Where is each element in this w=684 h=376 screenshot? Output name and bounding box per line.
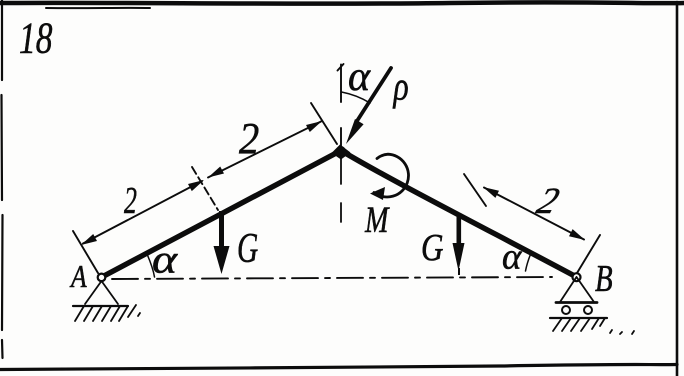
tick at top of vertical line (338, 64, 344, 71)
svg-text:α: α (152, 237, 178, 282)
support B ground line (550, 317, 607, 319)
border frame right (676, 2, 679, 376)
svg-text:G: G (237, 225, 258, 271)
angle arc alpha at A (147, 254, 155, 277)
support B rollers (562, 306, 570, 314)
wire: vertical dashed line above apex (340, 65, 342, 147)
svg-text:2: 2 (124, 180, 137, 222)
force G1 arrowhead (214, 246, 230, 274)
dimension extension line right-mid (464, 174, 486, 206)
dimension line l (left upper) (208, 122, 321, 178)
node A pin circle (98, 274, 106, 282)
support B base line (556, 301, 597, 304)
dim arrow left-lower end (188, 180, 204, 191)
svg-text:A: A (69, 259, 87, 294)
svg-text:α: α (502, 237, 523, 278)
force P arrowhead (346, 119, 364, 144)
wire: right bar apex-B (341, 151, 577, 278)
dimension extension line at left mid (dashed) (192, 167, 218, 210)
dim arrow right end (569, 229, 585, 240)
dim arrow left-upper start (208, 167, 224, 178)
wire: vertical dashed line below apex (340, 156, 342, 222)
dim arrow right start (483, 187, 499, 198)
force G1 shaft (219, 211, 224, 253)
angle arc alpha at B (526, 253, 532, 271)
force G2 tail tick (458, 268, 460, 275)
force P line (357, 68, 391, 121)
border frame bottom (0, 365, 677, 370)
node apex blob (337, 146, 346, 155)
dimension line l (left lower) (83, 181, 202, 244)
svg-text:B: B (595, 258, 613, 300)
dimension extension line at B (577, 235, 600, 273)
dimension extension line at A (73, 231, 98, 273)
border frame top (0, 2, 684, 3)
force G2 shaft (457, 213, 462, 249)
support A triangle legs (85, 281, 118, 304)
dim arrow left-upper end (306, 121, 322, 132)
dim arrow left-lower start (81, 234, 97, 245)
moment M arc (374, 154, 409, 197)
support B triangle (560, 277, 594, 302)
angle arc alpha top (342, 92, 371, 103)
svg-text:α: α (348, 54, 371, 100)
border frame left (2, 0, 3, 358)
support A ground line (73, 305, 128, 307)
svg-text:18: 18 (19, 14, 53, 62)
support B hatching (553, 318, 634, 334)
moment M arrowhead (370, 187, 385, 200)
svg-text:ρ: ρ (393, 63, 409, 109)
dimension extension line at apex (311, 103, 337, 144)
svg-text:M: M (364, 200, 390, 241)
svg-text:G: G (421, 226, 444, 269)
node B pin circle (573, 273, 581, 281)
dimension line l (right) (484, 188, 584, 240)
support A hatching (75, 305, 140, 321)
wire: left bar A-apex (101, 151, 341, 278)
svg-text:2: 2 (239, 114, 259, 163)
border frame top second sketch line (46, 7, 150, 9)
force G2 arrowhead (453, 243, 465, 271)
wire: center dash-dot line A-B (112, 277, 552, 279)
